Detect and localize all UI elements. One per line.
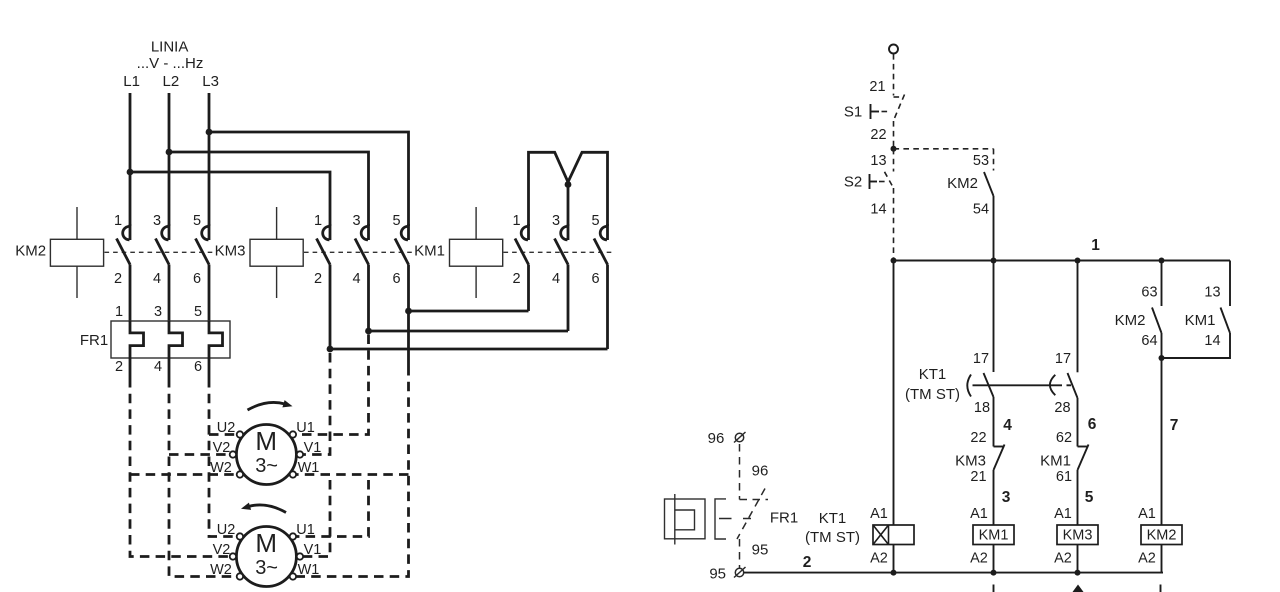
svg-text:FR1: FR1 — [80, 332, 108, 349]
wire delta column U1 dashed — [296, 335, 368, 537]
svg-text:V1: V1 — [304, 542, 322, 558]
svg-text:A1: A1 — [870, 506, 888, 522]
svg-text:KM2: KM2 — [947, 175, 978, 192]
svg-text:17: 17 — [1055, 351, 1071, 367]
svg-text:S1: S1 — [844, 104, 862, 121]
motor M2 3-phase — [236, 527, 296, 587]
timer mechanical link — [973, 384, 1072, 386]
wire L2 vertical — [168, 93, 171, 226]
contactor KM2 coil — [15, 207, 103, 298]
wire branch to KT1 coil — [893, 261, 895, 526]
svg-text:5: 5 — [194, 304, 202, 320]
node L2 — [163, 73, 180, 90]
svg-text:KM3: KM3 — [215, 243, 246, 260]
contact KT1 17-18 timed — [967, 261, 993, 447]
bus node 1 — [891, 237, 1231, 264]
svg-text:96: 96 — [752, 463, 769, 480]
FR1 trip contact 95-96 — [708, 430, 799, 583]
coil KM3 — [1054, 506, 1098, 573]
svg-text:KM2: KM2 — [1115, 312, 1146, 329]
svg-text:KM3: KM3 — [1063, 528, 1093, 544]
coil KT1 (TM ST) — [805, 506, 914, 573]
svg-text:A1: A1 — [970, 506, 988, 522]
svg-text:62: 62 — [1056, 430, 1072, 446]
wire FR1-4 phase column dashed — [169, 378, 237, 577]
contact KM1 61-62 NC — [1040, 430, 1088, 525]
svg-text:3: 3 — [1002, 489, 1011, 506]
svg-text:A2: A2 — [970, 551, 988, 567]
svg-text:17: 17 — [973, 351, 989, 367]
svg-text:5: 5 — [193, 213, 201, 229]
svg-text:54: 54 — [973, 202, 989, 218]
node 4 — [1003, 417, 1012, 434]
wire delta column V1 dashed — [303, 353, 330, 557]
svg-text:LINIA: LINIA — [151, 39, 189, 56]
wire FR1-2 phase column dashed — [130, 378, 237, 557]
svg-text:22: 22 — [970, 430, 986, 446]
svg-text:L3: L3 — [202, 73, 219, 90]
coil KM1 — [970, 506, 1014, 573]
junction dot KM2 64 / KM1 14 — [1159, 355, 1165, 361]
svg-text:95: 95 — [752, 542, 769, 559]
node L1 — [123, 73, 140, 90]
svg-text:V1: V1 — [304, 440, 322, 456]
wire L1 to KM3 pole 1 — [127, 169, 330, 226]
svg-text:2: 2 — [314, 271, 322, 287]
supply terminal circle — [889, 45, 898, 54]
svg-text:3: 3 — [153, 213, 161, 229]
svg-text:L1: L1 — [123, 73, 140, 90]
KM1 pole contact 5-6 — [591, 213, 607, 349]
svg-text:L2: L2 — [163, 73, 180, 90]
svg-text:22: 22 — [870, 127, 886, 143]
svg-text:2: 2 — [803, 554, 812, 571]
motor M2 terminals — [210, 522, 321, 580]
star bridge above KM1 — [529, 152, 608, 226]
wire KM1 terminal 4 to node — [365, 328, 568, 335]
svg-text:61: 61 — [1056, 469, 1072, 485]
wire FR1-6 phase column dashed — [209, 378, 237, 537]
contact KM2 53-54 — [947, 149, 993, 261]
svg-text:U1: U1 — [296, 522, 315, 538]
KM2 pole contact 3-4 — [153, 213, 169, 321]
contact KM2 63-64 NO — [1115, 261, 1162, 359]
svg-text:3: 3 — [154, 304, 162, 320]
svg-text:A2: A2 — [1054, 551, 1072, 567]
svg-text:63: 63 — [1141, 285, 1157, 301]
svg-text:A1: A1 — [1054, 506, 1072, 522]
svg-text:64: 64 — [1141, 333, 1157, 349]
motor M1 3-phase — [236, 425, 296, 485]
svg-text:1: 1 — [114, 213, 122, 229]
svg-text:U1: U1 — [296, 420, 315, 436]
wire KM1 terminal 2 to node — [405, 308, 528, 315]
wire KM1 terminal 6 to node — [327, 346, 608, 353]
node 7 — [1170, 417, 1179, 434]
svg-text:(TM ST): (TM ST) — [905, 386, 960, 403]
svg-text:W1: W1 — [298, 562, 320, 578]
svg-text:14: 14 — [1204, 333, 1220, 349]
wire L3 vertical — [208, 93, 211, 226]
thermal relay FR1 — [80, 304, 230, 378]
svg-text:A2: A2 — [870, 551, 888, 567]
svg-text:KM1: KM1 — [1040, 453, 1071, 470]
svg-text:1: 1 — [512, 213, 520, 229]
svg-text:KM1: KM1 — [979, 528, 1009, 544]
wire delta column W1 dashed — [296, 366, 408, 577]
KM1 mechanical linkage — [504, 251, 613, 253]
svg-text:(TM ST): (TM ST) — [805, 529, 860, 546]
rotation arrow CCW — [241, 503, 286, 513]
contact KM1 13-14 NO — [1162, 261, 1231, 359]
svg-text:13: 13 — [1204, 285, 1220, 301]
svg-text:6: 6 — [194, 359, 202, 375]
svg-text:W2: W2 — [210, 562, 232, 578]
svg-text:3~: 3~ — [255, 557, 278, 579]
svg-text:4: 4 — [153, 271, 161, 287]
contactor KM3 coil — [215, 207, 304, 298]
button S1 NC contact 21-22 — [844, 79, 905, 149]
svg-text:FR1: FR1 — [770, 510, 798, 527]
wire L1 vertical — [129, 93, 132, 226]
KM3 pole contact 1-2 — [314, 213, 330, 349]
svg-text:2: 2 — [114, 271, 122, 287]
svg-text:1: 1 — [1091, 237, 1100, 254]
svg-text:U2: U2 — [217, 420, 236, 436]
rotation arrow CW — [248, 400, 293, 410]
svg-text:M: M — [255, 528, 277, 558]
KM2 mechanical linkage — [105, 251, 215, 253]
svg-text:28: 28 — [1054, 400, 1070, 416]
svg-text:W1: W1 — [298, 460, 320, 476]
node 6 — [1088, 416, 1097, 433]
contactor KM1 coil — [414, 207, 503, 298]
svg-text:6: 6 — [1088, 416, 1097, 433]
KM3 pole contact 3-4 — [352, 213, 368, 331]
svg-text:7: 7 — [1170, 417, 1179, 434]
node 5 — [1085, 489, 1094, 506]
svg-text:KM2: KM2 — [1147, 528, 1177, 544]
svg-text:V2: V2 — [213, 542, 231, 558]
wire L3 to KM3 pole 5 — [206, 129, 409, 226]
svg-text:A2: A2 — [1138, 551, 1156, 567]
svg-text:KM1: KM1 — [414, 243, 445, 260]
FR1 heater symbol — [665, 494, 752, 545]
svg-text:U2: U2 — [217, 522, 236, 538]
svg-text:5: 5 — [392, 213, 400, 229]
wire L2 to KM3 pole 3 — [166, 149, 369, 226]
svg-text:KM3: KM3 — [955, 453, 986, 470]
svg-text:3~: 3~ — [255, 455, 278, 477]
wire supply dashed — [893, 54, 895, 96]
wire branch to KM2 coil — [1161, 358, 1163, 525]
svg-text:S2: S2 — [844, 174, 862, 191]
KM1 pole contact 1-2 — [512, 213, 528, 311]
svg-text:KT1: KT1 — [919, 366, 947, 383]
svg-text:...V - ...Hz: ...V - ...Hz — [137, 55, 204, 72]
svg-text:18: 18 — [974, 400, 990, 416]
bus node 2 — [744, 554, 1163, 576]
KM3 mechanical linkage — [304, 251, 413, 253]
svg-text:21: 21 — [869, 79, 885, 95]
motor M1 terminals — [210, 420, 321, 478]
node 3 — [1002, 489, 1011, 506]
svg-text:3: 3 — [352, 213, 360, 229]
coil KM2 — [1138, 506, 1182, 573]
KM2 pole contact 5-6 — [193, 213, 209, 321]
svg-text:53: 53 — [973, 153, 989, 169]
label KT1 (TM ST) timer — [905, 366, 960, 403]
svg-text:1: 1 — [314, 213, 322, 229]
wire to KM2 53 dashed — [894, 148, 994, 150]
continuation marks below bus 2 — [994, 585, 1161, 592]
svg-text:6: 6 — [591, 271, 599, 287]
svg-text:KM1: KM1 — [1185, 312, 1216, 329]
svg-text:95: 95 — [709, 566, 726, 583]
svg-text:4: 4 — [1003, 417, 1012, 434]
svg-text:96: 96 — [708, 430, 725, 447]
contact KM3 21-22 NC — [955, 430, 1004, 525]
svg-text:M: M — [255, 426, 277, 456]
button S2 NO contact 13-14 — [844, 149, 894, 261]
svg-text:2: 2 — [115, 359, 123, 375]
svg-text:4: 4 — [352, 271, 360, 287]
svg-text:5: 5 — [591, 213, 599, 229]
KM1 pole contact 3-4 — [552, 213, 568, 331]
svg-text:6: 6 — [392, 271, 400, 287]
svg-text:3: 3 — [552, 213, 560, 229]
KM3 pole contact 5-6 — [392, 213, 408, 366]
svg-text:A1: A1 — [1138, 506, 1156, 522]
label LINIA supply — [137, 39, 204, 73]
svg-text:5: 5 — [1085, 489, 1094, 506]
svg-text:KT1: KT1 — [819, 510, 847, 527]
svg-text:KM2: KM2 — [15, 243, 46, 260]
svg-text:14: 14 — [870, 202, 886, 218]
svg-text:V2: V2 — [213, 440, 231, 456]
contact KT1 17-28 timed — [1050, 261, 1078, 447]
junction dot below S1 — [891, 146, 897, 152]
svg-text:13: 13 — [870, 153, 886, 169]
node L3 — [202, 73, 219, 90]
svg-text:1: 1 — [115, 304, 123, 320]
KM2 pole contact 1-2 — [114, 213, 130, 321]
svg-text:W2: W2 — [210, 460, 232, 476]
svg-text:2: 2 — [512, 271, 520, 287]
svg-text:4: 4 — [154, 359, 162, 375]
svg-text:4: 4 — [552, 271, 560, 287]
svg-text:6: 6 — [193, 271, 201, 287]
svg-text:21: 21 — [970, 469, 986, 485]
